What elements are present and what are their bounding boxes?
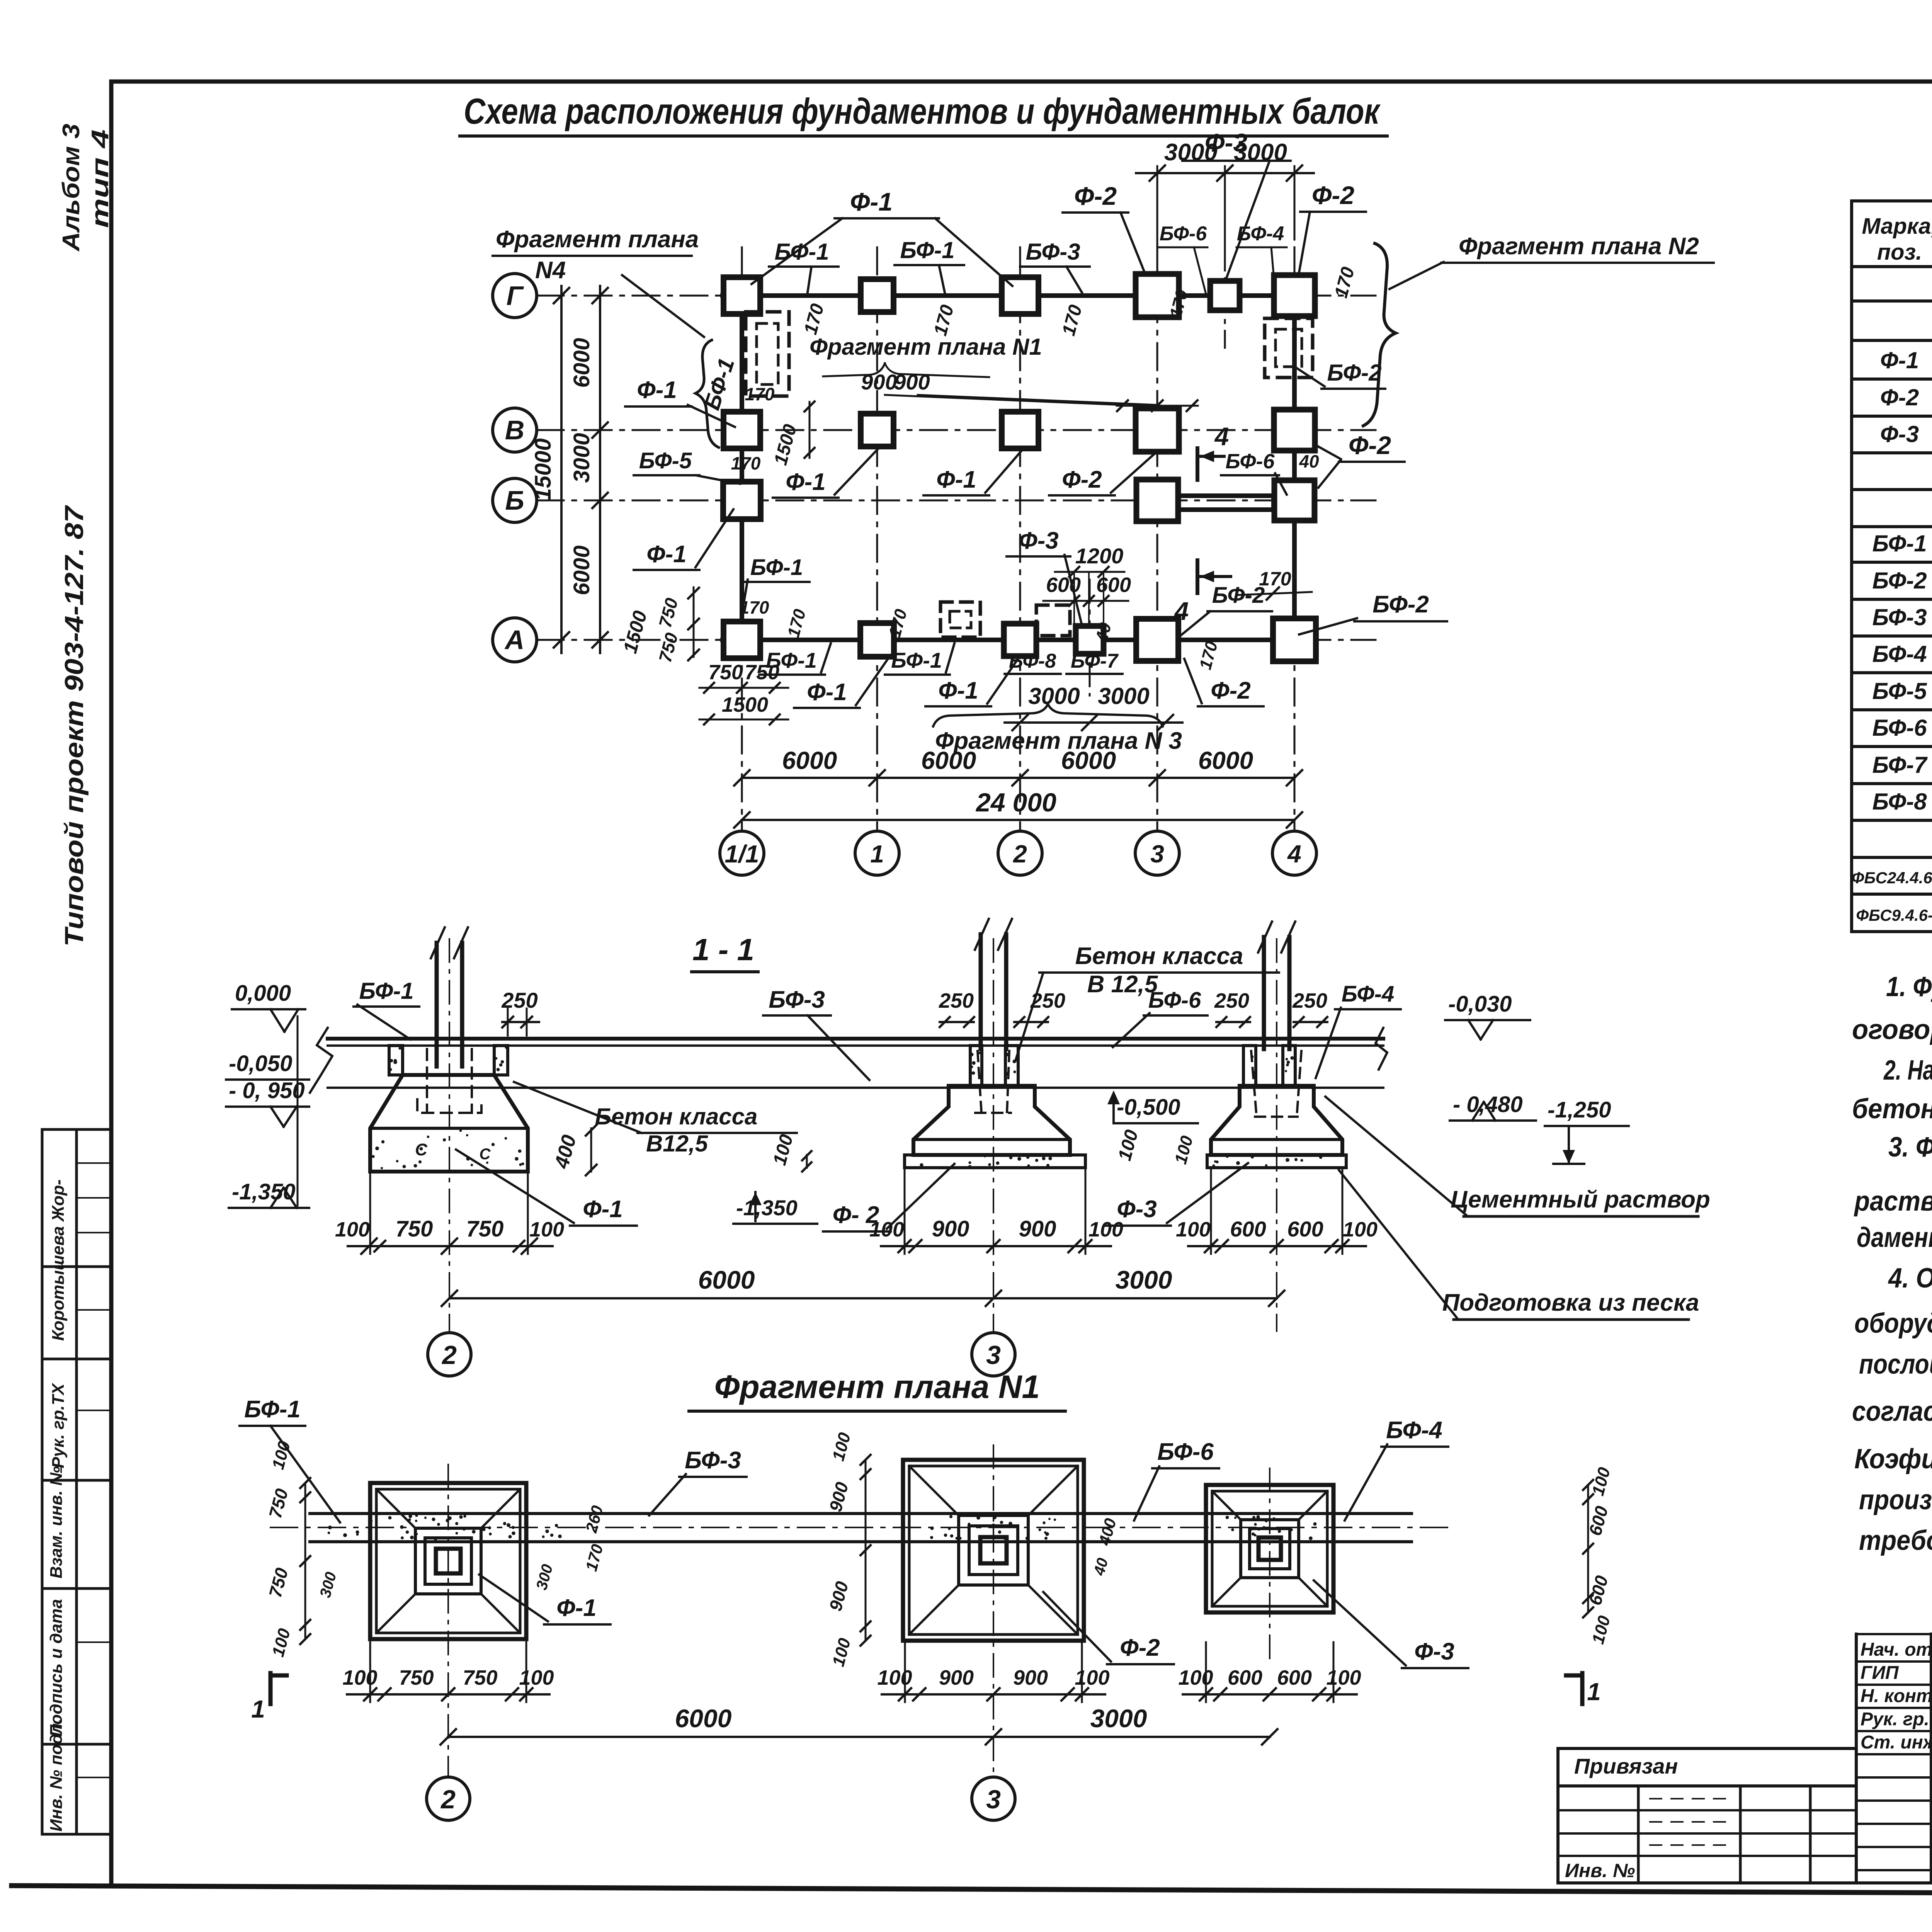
svg-text:Нач. отд: Нач. отд <box>1861 1639 1932 1660</box>
svg-text:ФБС24.4.6-Т: ФБС24.4.6-Т <box>1852 869 1932 887</box>
foundation Ф-2 section <box>970 1046 982 1086</box>
svg-text:100: 100 <box>1343 1218 1378 1241</box>
foundation Ф-3 section <box>1243 1046 1256 1086</box>
brace at plan top-left <box>696 340 719 447</box>
svg-text:- 0,480: - 0,480 <box>1453 1092 1523 1117</box>
foundation squares row Б <box>723 482 761 519</box>
svg-text:БФ-2: БФ-2 <box>1872 568 1927 594</box>
svg-text:6000: 6000 <box>569 338 594 388</box>
fragment bottom dims <box>347 1693 549 1696</box>
section column circles <box>428 1333 471 1376</box>
svg-text:1. Фундаменты запроектированы: 1. Фундаменты запроектированы для геолог… <box>1886 971 1932 1002</box>
svg-text:100: 100 <box>342 1666 377 1689</box>
svg-text:Ф-2: Ф-2 <box>1120 1634 1160 1661</box>
Ф-3 prep layer <box>1207 1155 1346 1168</box>
left break mark <box>310 1028 332 1093</box>
title block signature table <box>1855 1634 1858 1883</box>
svg-text:тип 4: тип 4 <box>87 129 114 228</box>
svg-text:оборудования и полы выполнять: оборудования и полы выполнять минеральны… <box>1854 1308 1932 1339</box>
svg-text:Ф-2: Ф-2 <box>1312 181 1355 209</box>
svg-text:0,000: 0,000 <box>235 981 291 1006</box>
svg-text:С: С <box>415 1140 428 1159</box>
svg-text:Схема расположения фундамент: Схема расположения фундаментов и фундаме… <box>464 91 1381 131</box>
svg-text:Фрагмент плана N2: Фрагмент плана N2 <box>1459 233 1699 260</box>
dashed pit on А axis (2-3) <box>1036 605 1070 636</box>
svg-text:ГИП: ГИП <box>1861 1663 1899 1683</box>
svg-text:900: 900 <box>1013 1666 1048 1689</box>
svg-text:В: В <box>505 415 525 445</box>
svg-text:Бетон класса: Бетон класса <box>595 1104 758 1129</box>
svg-text:БФ-6: БФ-6 <box>1872 715 1927 741</box>
svg-text:Н. контр.: Н. контр. <box>1861 1686 1932 1706</box>
left dim line 15000 <box>560 286 563 653</box>
svg-text:Г: Г <box>507 281 524 311</box>
svg-text:даментных балок и фундаментами: даментных балок и фундаментами заделать … <box>1857 1222 1932 1253</box>
svg-text:Рук. гр.: Рук. гр. <box>1861 1709 1929 1730</box>
svg-text:поз.: поз. <box>1877 240 1922 265</box>
svg-text:15000: 15000 <box>531 438 556 500</box>
svg-text:170: 170 <box>731 453 761 473</box>
plan axis circles <box>493 274 537 318</box>
svg-text:БФ-2: БФ-2 <box>1212 583 1265 608</box>
Ф-2 prep layer <box>905 1155 1085 1168</box>
svg-text:600: 600 <box>1046 573 1081 597</box>
svg-text:согласно ГОСТ 22733 -77 и конт: согласно ГОСТ 22733 -77 и контролем плот… <box>1852 1396 1932 1427</box>
svg-text:4: 4 <box>1287 840 1301 868</box>
svg-text:БФ-6: БФ-6 <box>1157 1439 1214 1465</box>
svg-text:4: 4 <box>1174 597 1189 625</box>
svg-text:Альбом 3: Альбом 3 <box>58 124 85 252</box>
column over Ф-3 <box>1262 937 1266 1049</box>
svg-text:100: 100 <box>335 1218 370 1241</box>
svg-text:3: 3 <box>1150 840 1164 868</box>
svg-text:Фрагмент плана: Фрагмент плана <box>496 226 699 253</box>
svg-text:1200: 1200 <box>1075 544 1124 568</box>
svg-text:БФ-3: БФ-3 <box>769 986 825 1013</box>
svg-text:А: А <box>504 625 525 655</box>
svg-text:1/1: 1/1 <box>725 840 759 868</box>
svg-text:Коротышева Жор-: Коротышева Жор- <box>49 1179 68 1341</box>
svg-text:Привязан: Привязан <box>1574 1754 1678 1778</box>
Ф-1 socket dashed <box>426 1049 428 1113</box>
svg-text:производства работ принимаются: производства работ принимаются в соответ… <box>1859 1485 1932 1515</box>
svg-text:Инв. № подл.: Инв. № подл. <box>47 1719 66 1832</box>
fragment dim 6000/3000 <box>448 1736 1270 1738</box>
svg-text:БФ-6: БФ-6 <box>1160 223 1207 245</box>
svg-text:6000: 6000 <box>569 545 594 595</box>
svg-text:6000: 6000 <box>698 1265 755 1294</box>
svg-text:Ф-1: Ф-1 <box>556 1595 597 1621</box>
slab lines <box>328 1037 1383 1041</box>
svg-text:Ф-1: Ф-1 <box>637 377 677 403</box>
beam on axis Б between 3 and 4 <box>1179 493 1273 498</box>
svg-text:3000: 3000 <box>569 433 594 483</box>
Ф-3 socket dashed <box>1251 1051 1301 1117</box>
svg-text:750: 750 <box>745 661 779 684</box>
svg-text:250: 250 <box>1292 989 1327 1012</box>
svg-text:600: 600 <box>1096 573 1131 597</box>
svg-text:6000: 6000 <box>782 747 837 774</box>
svg-text:3000: 3000 <box>1116 1265 1172 1294</box>
section mark 4 lower <box>1196 560 1199 593</box>
svg-text:600: 600 <box>1228 1666 1262 1689</box>
svg-text:раствора М-200 толщиной 20мм.: раствора М-200 толщиной 20мм. Зазоры меж… <box>1854 1186 1932 1217</box>
svg-text:Ф-2: Ф-2 <box>1880 384 1919 410</box>
svg-text:2: 2 <box>440 1785 456 1814</box>
dashed pit on А axis (1-2) <box>940 602 980 637</box>
svg-text:600: 600 <box>1230 1217 1266 1241</box>
svg-text:100: 100 <box>519 1666 554 1689</box>
svg-text:Ф-1: Ф-1 <box>938 677 978 704</box>
svg-text:100: 100 <box>1178 1666 1213 1689</box>
svg-text:100: 100 <box>1326 1666 1361 1689</box>
svg-text:Ф-3: Ф-3 <box>1414 1638 1454 1665</box>
svg-text:БФ-5: БФ-5 <box>639 448 692 473</box>
svg-text:100: 100 <box>869 1218 904 1241</box>
svg-text:БФ-5: БФ-5 <box>1872 678 1927 704</box>
right brace <box>1363 243 1396 426</box>
svg-text:100: 100 <box>529 1218 564 1241</box>
svg-text:900: 900 <box>861 370 897 394</box>
svg-text:послойным уплотнением при опти: послойным уплотнением при оптимальной вл… <box>1859 1349 1932 1380</box>
svg-text:-0,030: -0,030 <box>1448 992 1512 1017</box>
svg-text:3000: 3000 <box>1090 1704 1147 1733</box>
column over Ф-1 <box>435 943 439 1066</box>
svg-text:Ф-1: Ф-1 <box>936 466 976 493</box>
svg-text:40: 40 <box>1299 451 1319 471</box>
svg-text:250: 250 <box>939 989 974 1012</box>
specification table <box>1850 201 1853 932</box>
svg-text:1 - 1: 1 - 1 <box>692 932 754 967</box>
svg-text:Ф-3: Ф-3 <box>1880 421 1919 447</box>
svg-text:ФБС9.4.6-Т: ФБС9.4.6-Т <box>1856 906 1932 924</box>
svg-text:600: 600 <box>1287 1217 1323 1241</box>
svg-text:2: 2 <box>1013 840 1027 868</box>
section cut marks 1 <box>270 1673 287 1704</box>
svg-text:БФ-1: БФ-1 <box>774 239 829 265</box>
svg-text:750: 750 <box>463 1666 497 1689</box>
svg-text:2: 2 <box>441 1340 457 1370</box>
svg-text:4: 4 <box>1214 422 1229 451</box>
svg-text:БФ-4: БФ-4 <box>1342 981 1394 1007</box>
svg-text:требованиями СН 536 - 81.: требованиями СН 536 - 81. <box>1859 1525 1932 1556</box>
svg-text:Ф-1: Ф-1 <box>583 1196 623 1223</box>
section dims Ф-3 <box>1210 1168 1212 1254</box>
svg-text:В12,5: В12,5 <box>646 1131 709 1156</box>
svg-text:6000: 6000 <box>921 747 976 774</box>
svg-text:Ф-1: Ф-1 <box>1880 347 1919 373</box>
svg-text:Ст. инж.: Ст. инж. <box>1861 1732 1932 1753</box>
Ф-2 socket dashed <box>975 1051 1011 1113</box>
svg-text:БФ-7: БФ-7 <box>1872 752 1928 778</box>
svg-text:Цементный раствор: Цементный раствор <box>1451 1186 1710 1213</box>
bottom dim 6000 x4 <box>742 777 1294 779</box>
fragment column circles <box>427 1777 470 1820</box>
svg-text:6000: 6000 <box>1061 747 1116 774</box>
svg-text:Рук. гр.ТХ: Рук. гр.ТХ <box>49 1383 68 1468</box>
svg-text:3: 3 <box>986 1340 1001 1370</box>
svg-text:БФ-4: БФ-4 <box>1386 1417 1442 1444</box>
svg-text:250: 250 <box>501 988 537 1012</box>
svg-text:БФ-1: БФ-1 <box>891 648 942 672</box>
svg-text:100: 100 <box>1075 1666 1109 1689</box>
foundation Ф-1 section <box>389 1046 403 1075</box>
svg-text:Инв. №: Инв. № <box>1565 1860 1635 1881</box>
svg-text:Ф-1: Ф-1 <box>850 187 893 216</box>
foundation squares row В <box>724 412 760 449</box>
svg-text:Подготовка из песка: Подготовка из песка <box>1442 1289 1699 1316</box>
svg-text:Взам. инв. №: Взам. инв. № <box>47 1466 66 1578</box>
svg-text:600: 600 <box>1277 1666 1312 1689</box>
svg-text:Фрагмент плана N1: Фрагмент плана N1 <box>810 334 1042 360</box>
svg-text:750: 750 <box>466 1216 504 1242</box>
foundation squares row А <box>724 622 760 658</box>
svg-text:Фрагмент плана N1: Фрагмент плана N1 <box>714 1369 1040 1405</box>
svg-text:БФ-1: БФ-1 <box>244 1396 301 1423</box>
section dims Ф-1 <box>369 1172 371 1254</box>
svg-text:900: 900 <box>1019 1216 1056 1242</box>
svg-text:БФ-7: БФ-7 <box>1071 650 1119 672</box>
svg-text:N4: N4 <box>535 257 566 284</box>
svg-text:1: 1 <box>870 840 884 868</box>
svg-text:1: 1 <box>1587 1678 1601 1706</box>
svg-text:750: 750 <box>396 1216 433 1242</box>
svg-text:3000: 3000 <box>1164 139 1218 166</box>
svg-text:900: 900 <box>932 1216 969 1242</box>
svg-text:6000: 6000 <box>675 1704 732 1733</box>
svg-text:2. Набетонки под фундаментные: 2. Набетонки под фундаментные балки выпо… <box>1883 1055 1932 1086</box>
plan column circles <box>720 831 764 875</box>
svg-text:БФ-4: БФ-4 <box>1237 223 1284 245</box>
svg-text:1: 1 <box>251 1695 265 1723</box>
svg-text:-0,500: -0,500 <box>1117 1095 1180 1120</box>
svg-text:БФ-1: БФ-1 <box>1872 531 1927 556</box>
svg-text:Ф-1: Ф-1 <box>807 679 847 706</box>
svg-text:С: С <box>480 1146 491 1163</box>
svg-text:БФ-1: БФ-1 <box>900 237 954 263</box>
svg-text:Ф-2: Ф-2 <box>1074 182 1117 210</box>
svg-text:100: 100 <box>1176 1218 1211 1241</box>
svg-text:750: 750 <box>708 661 743 684</box>
column over Ф-2 <box>979 934 983 1049</box>
dashes in privyazan cells <box>1650 1798 1727 1799</box>
beam strip <box>310 1512 1412 1515</box>
left dim line 6000/3000/6000 <box>599 286 601 653</box>
section mark 4 upper <box>1196 448 1199 480</box>
svg-text:1500: 1500 <box>722 693 768 716</box>
section dim 6000 / 3000 <box>449 1297 1277 1299</box>
dashed pit below Г at 4 <box>1265 318 1313 378</box>
foundation squares row Г <box>724 277 760 314</box>
foundation Ф-2 plan (col 3) <box>903 1460 1084 1641</box>
svg-text:-0,050: -0,050 <box>229 1051 292 1076</box>
fragment axis lines <box>447 1464 449 1777</box>
svg-text:3: 3 <box>986 1785 1001 1814</box>
svg-text:бетона класса В12,5.: бетона класса В12,5. <box>1852 1094 1932 1124</box>
svg-text:БФ-3: БФ-3 <box>1026 239 1080 265</box>
svg-text:БФ-2: БФ-2 <box>1327 360 1381 386</box>
svg-text:100: 100 <box>1088 1218 1123 1241</box>
svg-text:Ф-3: Ф-3 <box>1019 527 1059 554</box>
svg-text:900: 900 <box>939 1666 974 1689</box>
svg-text:оговоренных на лите АС-2.: оговоренных на лите АС-2. <box>1852 1014 1932 1045</box>
Фрагмент плана N3 <box>933 704 1163 726</box>
svg-text:Ф-2: Ф-2 <box>1062 466 1102 493</box>
svg-text:-1,350: -1,350 <box>736 1196 798 1220</box>
svg-text:3000: 3000 <box>1234 139 1287 166</box>
left attribute table <box>42 1128 111 1131</box>
svg-text:Ф-2: Ф-2 <box>1211 677 1251 704</box>
foundation Ф-3 plan <box>1206 1485 1333 1612</box>
svg-text:170: 170 <box>740 597 769 617</box>
section dims Ф-2 <box>904 1168 906 1254</box>
svg-text:3. Фундаментные балки укладыва: 3. Фундаментные балки укладывать на слой… <box>1888 1132 1932 1163</box>
svg-text:3000: 3000 <box>1098 683 1149 709</box>
svg-text:4. Обратную засыпку пазух фунд: 4. Обратную засыпку пазух фундаментов, п… <box>1888 1263 1932 1294</box>
svg-text:6000: 6000 <box>1198 747 1253 774</box>
svg-text:БФ-3: БФ-3 <box>685 1447 741 1474</box>
bottom border line <box>12 1886 1932 1896</box>
svg-text:Б: Б <box>505 485 524 515</box>
svg-text:250: 250 <box>1030 989 1065 1012</box>
svg-text:БФ-1: БФ-1 <box>750 555 803 580</box>
svg-text:750: 750 <box>399 1666 434 1689</box>
svg-text:Типовой проект 903-4-127. 87: Типовой проект 903-4-127. 87 <box>60 505 89 947</box>
perimeter beams <box>723 293 1314 298</box>
svg-text:БФ-8: БФ-8 <box>1872 789 1927 815</box>
beam bottom line <box>328 1087 1383 1089</box>
svg-text:-1,250: -1,250 <box>1548 1097 1611 1122</box>
svg-text:100: 100 <box>877 1666 912 1689</box>
right break mark <box>1376 1028 1387 1070</box>
svg-text:В 12,5: В 12,5 <box>1087 971 1158 998</box>
svg-text:БФ-8: БФ-8 <box>1009 650 1056 672</box>
svg-text:900: 900 <box>894 370 930 394</box>
svg-text:Коэфициент уплотнения, контрол: Коэфициент уплотнения, контроль качества… <box>1854 1444 1932 1475</box>
top dim 3000 3000 <box>1156 166 1158 267</box>
dashed pit below Г at 1/1 <box>746 312 789 396</box>
svg-text:24 000: 24 000 <box>975 788 1056 817</box>
svg-text:БФ-3: БФ-3 <box>1872 604 1927 630</box>
svg-text:250: 250 <box>1214 989 1249 1012</box>
privyazan block <box>1558 1747 1856 1750</box>
svg-text:БФ-6: БФ-6 <box>1225 450 1275 473</box>
section column axis lines <box>449 939 450 1331</box>
bottom dim 24000 <box>742 819 1294 821</box>
plan axis lines <box>537 295 1376 297</box>
svg-text:БФ-2: БФ-2 <box>1372 591 1429 618</box>
svg-text:3000: 3000 <box>1028 683 1080 709</box>
svg-text:БФ-6: БФ-6 <box>1148 988 1201 1013</box>
svg-text:БФ-1: БФ-1 <box>359 978 413 1004</box>
foundation Ф-1 plan (col 2) <box>370 1483 526 1639</box>
svg-text:Ф-1: Ф-1 <box>786 469 826 495</box>
svg-text:Ф-1: Ф-1 <box>646 541 687 568</box>
svg-text:БФ-4: БФ-4 <box>1872 641 1927 667</box>
svg-text:170: 170 <box>745 384 775 404</box>
plan column lines <box>741 247 743 831</box>
svg-text:Бетон класса: Бетон класса <box>1075 943 1243 969</box>
svg-text:Марка,: Марка, <box>1862 214 1932 239</box>
svg-text:Подпись и дата: Подпись и дата <box>47 1599 66 1737</box>
svg-text:Ф-2: Ф-2 <box>1349 431 1391 459</box>
svg-text:- 0, 950: - 0, 950 <box>229 1078 305 1103</box>
